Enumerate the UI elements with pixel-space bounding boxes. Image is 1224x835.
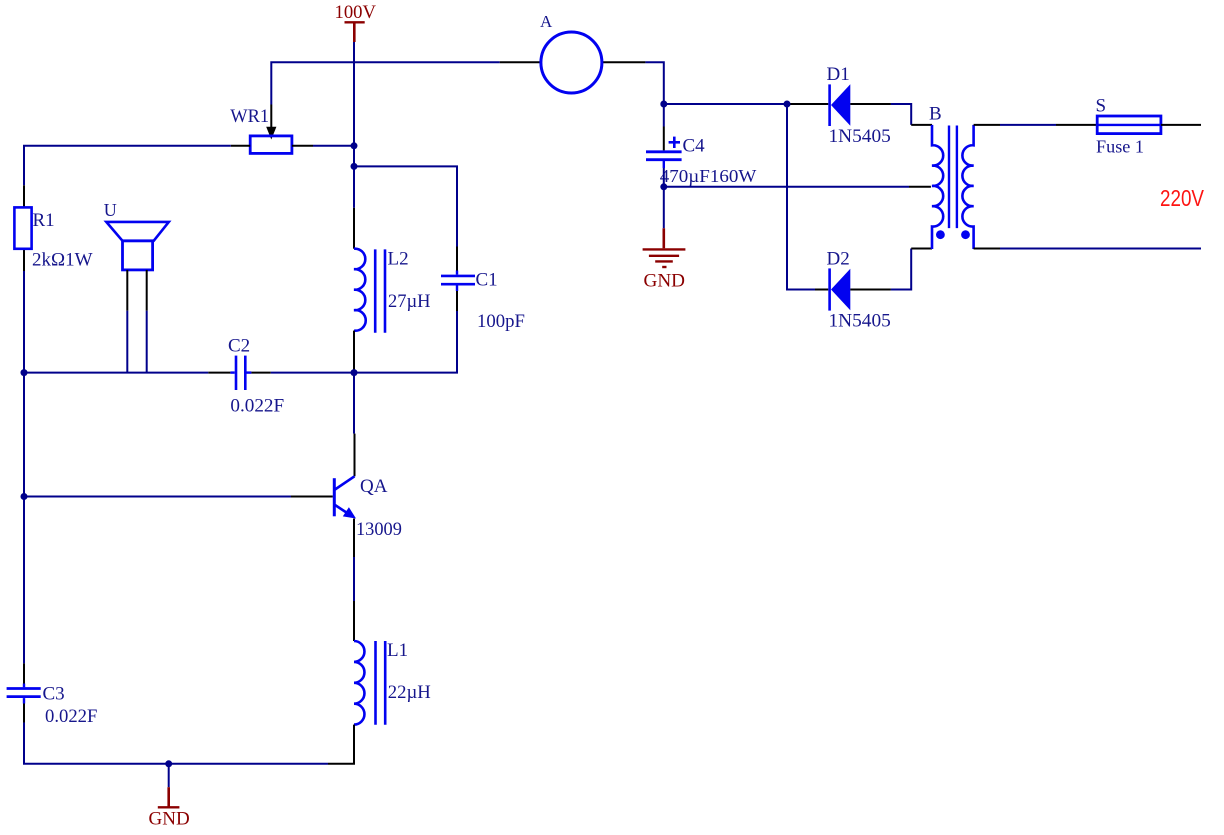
svg-text:1N5405: 1N5405 [829, 310, 891, 331]
diode D1 [830, 84, 851, 126]
wire C2 row y=372.6 [24, 372, 354, 374]
svg-text:C3: C3 [43, 683, 65, 704]
wire ammeter right to corner down [603, 62, 664, 104]
svg-text:L2: L2 [388, 249, 409, 270]
svg-text:S: S [1096, 96, 1107, 117]
transformer B core [949, 126, 957, 229]
wire C1 branch top [354, 166, 457, 274]
ground GND bottom port [158, 764, 180, 808]
svg-text:QA: QA [360, 476, 388, 497]
svg-text:27µH: 27µH [388, 291, 431, 312]
svg-text:100V: 100V [335, 3, 377, 23]
inductor L1 [354, 641, 385, 725]
svg-text:B: B [929, 104, 942, 125]
wire L1 bottom lead corner [328, 725, 354, 764]
wire C4 bottom to mid node [663, 160, 665, 187]
wire D2 row left lead [815, 289, 828, 291]
wire D2 right lead to transformer bottom [850, 249, 932, 290]
transformer B primary winding [932, 125, 943, 249]
wire WR1 wiper arm from top rail [266, 105, 276, 140]
svg-text:WR1: WR1 [230, 106, 269, 127]
speaker U [106, 222, 169, 270]
capacitor C2 [236, 356, 245, 390]
wire left rail x=24 down [23, 185, 25, 764]
svg-text:100pF: 100pF [477, 311, 525, 332]
wire C4 branch vertical [663, 104, 665, 150]
wire WR1 right to node [292, 145, 354, 147]
wire speaker left lead down [126, 270, 128, 373]
svg-text:0.022F: 0.022F [230, 395, 284, 416]
wire center rail from C2 row to QA collector [353, 373, 356, 477]
capacitor C3 [7, 689, 41, 697]
resistor R1 [14, 207, 31, 248]
wire QA emitter down to L1 [353, 519, 355, 642]
capacitor C1 [441, 276, 475, 284]
wire C1 bottom lead to C2 row [354, 284, 457, 372]
wire L2 bottom lead [353, 331, 355, 373]
svg-text:L1: L1 [387, 640, 408, 661]
svg-text:Fuse 1: Fuse 1 [1096, 137, 1144, 157]
ground GND earth symbol [643, 249, 686, 267]
svg-text:C1: C1 [476, 270, 498, 291]
svg-text:U: U [104, 200, 117, 220]
wire D1 right lead to transformer [850, 104, 932, 125]
svg-text:D2: D2 [827, 248, 850, 269]
capacitor C4 [646, 137, 682, 160]
svg-text:220V: 220V [1160, 185, 1204, 211]
svg-text:R1: R1 [33, 210, 55, 231]
svg-text:470µF160W: 470µF160W [660, 166, 757, 186]
node 100V power port [335, 3, 377, 42]
wire secondary top lead to fuse [974, 124, 1098, 126]
wire mid row y=186.8 to transformer centre tap [664, 186, 931, 188]
wire speaker right lead down [146, 270, 148, 373]
svg-text:22µH: 22µH [388, 682, 431, 703]
transformer B secondary winding [962, 125, 973, 249]
fuse S [1097, 116, 1161, 134]
node junction row y=104 [664, 103, 787, 105]
wire D1 row left lead [787, 103, 828, 105]
wire top rail from WR1 arm corner to ammeter [271, 62, 540, 104]
svg-text:1N5405: 1N5405 [829, 126, 891, 147]
svg-text:A: A [540, 12, 553, 31]
potentiometer WR1 [250, 136, 292, 154]
diode D2 [830, 268, 851, 310]
svg-text:C2: C2 [228, 335, 250, 356]
wire right branch x=787 down to D2 row [787, 104, 815, 290]
wire center rail x=354 from 100V down to L2 [353, 42, 355, 249]
ammeter A [541, 32, 602, 93]
wire bottom rail [24, 723, 328, 764]
node junction dots [21, 101, 791, 768]
svg-text:2kΩ1W: 2kΩ1W [32, 249, 93, 270]
inductor L2 [354, 249, 385, 333]
svg-text:D1: D1 [827, 64, 850, 85]
svg-text:GND: GND [644, 271, 686, 291]
wire WR1 left to left rail [24, 146, 250, 186]
transformer B phase dots [936, 230, 970, 239]
wire secondary bottom lead to edge [974, 248, 1201, 250]
svg-text:GND: GND [149, 809, 190, 829]
transistor QA [334, 476, 356, 518]
wire C4 gnd stem [663, 187, 665, 249]
wire fuse right to edge [1161, 124, 1201, 126]
wire QA base row y=496.5 [24, 496, 333, 498]
svg-text:C4: C4 [683, 136, 706, 157]
svg-text:0.022F: 0.022F [45, 706, 97, 727]
svg-text:13009: 13009 [356, 519, 402, 540]
